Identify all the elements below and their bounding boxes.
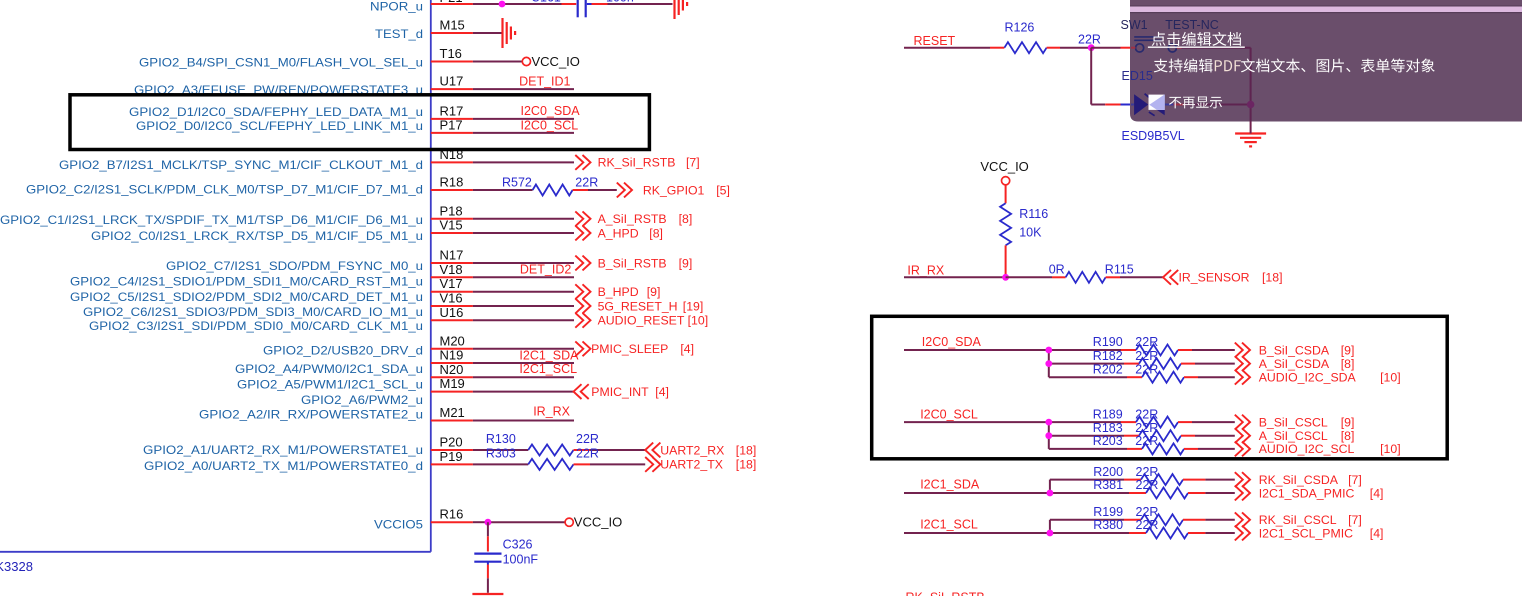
svg-text:DET_ID1: DET_ID1 xyxy=(519,74,570,88)
svg-text:[19]: [19] xyxy=(683,299,704,313)
junction RESET/ESD node xyxy=(1088,44,1095,51)
wire I2C0_SCL branch vertical xyxy=(1048,422,1050,449)
pin GPIO2_C0 wire xyxy=(431,232,473,234)
pin GPIO2_D1 wire xyxy=(431,118,473,120)
off-page connector AUDIO_RESET xyxy=(575,313,590,328)
svg-text:[7]: [7] xyxy=(1348,473,1362,487)
wire R203 to AUDIO_I2C_SCL xyxy=(1184,448,1198,450)
wire I2C0_SDA main xyxy=(904,349,1049,351)
svg-text:VCC_IO: VCC_IO xyxy=(574,515,622,530)
off-page connector PMIC_SLEEP xyxy=(575,341,590,356)
popup description PDF xyxy=(1215,60,1222,71)
popup checkbox xyxy=(1149,95,1165,110)
svg-text:100nF: 100nF xyxy=(503,553,539,567)
svg-text:U16: U16 xyxy=(440,305,464,320)
svg-text:[9]: [9] xyxy=(679,256,693,270)
svg-text:UART2_RX: UART2_RX xyxy=(660,443,724,457)
svg-text:R200: R200 xyxy=(1093,465,1123,479)
pin GPIO2_C4 wire xyxy=(431,276,473,278)
svg-text:R182: R182 xyxy=(1093,349,1123,363)
resistor R182 row wire xyxy=(1049,363,1124,365)
resistor R183 body xyxy=(1139,430,1181,441)
resistor R190 row wire xyxy=(1049,349,1121,351)
ground (TEST pin) xyxy=(501,18,503,48)
svg-text:[10]: [10] xyxy=(688,314,709,328)
wire I2C0_SDA branch vertical xyxy=(1048,350,1050,377)
resistor R130 body xyxy=(528,445,573,456)
wire R126 to SW1 xyxy=(1047,47,1060,49)
svg-text:GPIO2_A6/PWM2_u: GPIO2_A6/PWM2_u xyxy=(301,393,423,407)
off-page connector UART2_RX xyxy=(645,443,660,458)
svg-text:R183: R183 xyxy=(1093,421,1123,435)
pin GPIO2_C7 wire xyxy=(431,262,473,264)
off-page connector A_SiI_CSDA xyxy=(1235,356,1250,371)
svg-text:N20: N20 xyxy=(440,362,464,377)
annotation box around I2C0 fan-out xyxy=(872,316,1447,459)
svg-text:VCC_IO: VCC_IO xyxy=(532,54,580,69)
diode ED15 cathode bar ticks xyxy=(1145,94,1155,116)
pin GPIO2_D0 wire xyxy=(431,132,473,134)
svg-text:[5]: [5] xyxy=(716,183,730,197)
svg-text:22R: 22R xyxy=(575,175,598,189)
svg-text:5G_RESET_H: 5G_RESET_H xyxy=(598,299,678,313)
svg-text:U17: U17 xyxy=(440,74,464,89)
resistor R183 row wire xyxy=(1049,435,1124,437)
svg-text:0R: 0R xyxy=(1049,263,1065,277)
resistor R200 row wire xyxy=(1050,479,1124,481)
wire I2C1_SDA branch vertical xyxy=(1049,480,1051,493)
svg-text:RK3328: RK3328 xyxy=(0,559,33,574)
svg-text:GPIO2_D0/I2C0_SCL/FEPHY_LED_LI: GPIO2_D0/I2C0_SCL/FEPHY_LED_LINK_M1_u xyxy=(136,119,423,133)
diode ED15 left triangle xyxy=(1134,94,1148,115)
wire I2C1_SCL main xyxy=(904,532,1050,534)
popup overlay panel xyxy=(1130,0,1522,122)
off-page connector A_SiI_RSTB xyxy=(575,211,590,226)
svg-text:[4]: [4] xyxy=(1370,486,1384,500)
svg-text:IR_RX: IR_RX xyxy=(533,405,570,419)
svg-text:GPIO2_C5/I2S1_SDIO2/PDM_SDI2_M: GPIO2_C5/I2S1_SDIO2/PDM_SDI2_M0/CARD_DET… xyxy=(70,290,423,304)
switch SW1 left contact xyxy=(1136,44,1144,52)
resistor R203 body xyxy=(1142,443,1184,454)
capacitor C161 plates xyxy=(577,0,579,17)
wire SW1 to corner (through popup) xyxy=(1177,47,1182,49)
svg-text:[8]: [8] xyxy=(679,212,693,226)
svg-text:IR_RX: IR_RX xyxy=(907,263,944,277)
svg-text:I2C1_SDA_PMIC: I2C1_SDA_PMIC xyxy=(1259,486,1355,500)
svg-text:V16: V16 xyxy=(440,291,463,306)
wire C161 to ground xyxy=(587,3,592,5)
svg-text:GPIO2_C6/I2S1_SDIO3/PDM_SDI3_M: GPIO2_C6/I2S1_SDIO3/PDM_SDI3_M0/CARD_IO_… xyxy=(83,305,423,319)
off-page connector RK_SiI_CSDA xyxy=(1235,472,1250,487)
svg-text:[10]: [10] xyxy=(1380,371,1401,385)
wire I2C0_SCL main xyxy=(904,421,1049,423)
svg-text:I2C0_SCL: I2C0_SCL xyxy=(920,407,978,421)
svg-text:ED15: ED15 xyxy=(1122,69,1153,83)
svg-text:22R: 22R xyxy=(576,432,599,446)
resistor R115 body xyxy=(1066,272,1106,283)
svg-text:TEST_d: TEST_d xyxy=(375,27,423,41)
diode ED15 right triangle xyxy=(1149,94,1164,115)
svg-text:AUDIO_RESET: AUDIO_RESET xyxy=(598,314,685,328)
svg-text:PMIC_SLEEP: PMIC_SLEEP xyxy=(591,342,668,356)
svg-text:R189: R189 xyxy=(1093,407,1123,421)
wire R115 to IR_SENSOR xyxy=(1106,276,1120,278)
junction I2C0_SCL row1 xyxy=(1045,419,1052,426)
svg-text:GPIO2_A2/IR_RX/POWERSTATE2_u: GPIO2_A2/IR_RX/POWERSTATE2_u xyxy=(199,407,423,421)
svg-text:B_HPD: B_HPD xyxy=(598,285,639,299)
svg-text:C326: C326 xyxy=(503,537,533,551)
svg-text:M19: M19 xyxy=(440,376,465,391)
pin TEST_d wire xyxy=(431,32,473,34)
svg-text:I2C0_SCL: I2C0_SCL xyxy=(521,118,579,132)
svg-text:R116: R116 xyxy=(1019,207,1048,221)
svg-text:RK_SiI_RSTB: RK_SiI_RSTB xyxy=(906,591,985,596)
off-page connector RK_SiI_CSCL xyxy=(1235,512,1250,527)
svg-text:B_SiI_CSCL: B_SiI_CSCL xyxy=(1259,415,1328,429)
wire VCC_IO to R116 xyxy=(1005,185,1007,204)
svg-text:DET_ID2: DET_ID2 xyxy=(520,263,571,277)
resistor R380 row wire xyxy=(1050,532,1129,534)
wire R381 to I2C1_SDA_PMIC xyxy=(1188,492,1205,494)
power terminal VCC_IO on VCCIO5 row xyxy=(565,518,573,526)
popup light band xyxy=(1130,7,1522,13)
svg-text:[4]: [4] xyxy=(1370,526,1384,540)
wire ED15 anode (through popup) xyxy=(1131,104,1134,106)
resistor R199 row wire xyxy=(1050,519,1124,521)
junction ED15/ground node (through popup) xyxy=(1247,101,1255,109)
switch SW1 actuator bar xyxy=(1134,36,1162,38)
svg-text:B_SiI_CSDA: B_SiI_CSDA xyxy=(1259,343,1330,357)
svg-text:A_SiI_CSCL: A_SiI_CSCL xyxy=(1259,429,1328,443)
svg-text:[18]: [18] xyxy=(736,458,757,472)
svg-text:RK_GPIO1: RK_GPIO1 xyxy=(643,183,705,197)
power terminal VCC_IO (pull-up) xyxy=(1002,177,1010,185)
svg-text:GPIO2_A0/UART2_TX_M1/POWERSTAT: GPIO2_A0/UART2_TX_M1/POWERSTATE0_d xyxy=(144,459,423,473)
svg-text:TEST-NC: TEST-NC xyxy=(1165,18,1218,32)
power terminal VCC_IO on T16 row xyxy=(522,57,530,65)
svg-text:AUDIO_I2C_SCL: AUDIO_I2C_SCL xyxy=(1259,442,1355,456)
svg-text:A_SiI_RSTB: A_SiI_RSTB xyxy=(598,212,667,226)
svg-text:RK_SiI_RSTB: RK_SiI_RSTB xyxy=(598,156,676,170)
pin GPIO2_C1 wire xyxy=(431,218,473,220)
wire I2C1_SDA main xyxy=(904,492,1050,494)
off-page connector B_HPD xyxy=(575,284,590,299)
svg-text:[9]: [9] xyxy=(1341,415,1355,429)
svg-text:A_HPD: A_HPD xyxy=(598,226,639,240)
wire R572 to RK_GPIO1 xyxy=(573,189,588,191)
svg-text:[10]: [10] xyxy=(1380,442,1401,456)
svg-text:SW1: SW1 xyxy=(1121,18,1148,32)
svg-text:R18: R18 xyxy=(440,175,464,190)
ground (NPOR decoupling) xyxy=(673,0,675,19)
off-page connector PMIC_INT xyxy=(574,384,589,399)
resistor R126 body xyxy=(1004,42,1046,53)
svg-text:[18]: [18] xyxy=(1262,271,1283,285)
svg-text:C161: C161 xyxy=(531,0,561,5)
resistor R189 body xyxy=(1136,417,1178,428)
off-page connector I2C1_SDA_PMIC xyxy=(1235,486,1250,501)
resistor R381 body xyxy=(1146,488,1188,499)
wire R200 to RK_SiI_CSDA xyxy=(1183,479,1205,481)
svg-text:GPIO2_C1/I2S1_LRCK_TX/SPDIF_TX: GPIO2_C1/I2S1_LRCK_TX/SPDIF_TX_M1/TSP_D6… xyxy=(0,213,423,227)
svg-text:P20: P20 xyxy=(440,435,463,450)
wire R130 to UART2_RX xyxy=(574,449,591,451)
svg-text:[4]: [4] xyxy=(655,385,669,399)
svg-text:R199: R199 xyxy=(1093,505,1123,519)
svg-text:R380: R380 xyxy=(1093,518,1123,532)
wire RESET into SW1 (through popup) xyxy=(1131,47,1135,49)
junction I2C1_SCL xyxy=(1047,530,1054,537)
svg-text:22R: 22R xyxy=(576,446,599,460)
junction I2C0_SDA row2 xyxy=(1045,360,1052,367)
svg-text:GPIO2_C4/I2S1_SDIO1/PDM_SDI1_M: GPIO2_C4/I2S1_SDIO1/PDM_SDI1_M0/CARD_RST… xyxy=(70,275,423,289)
svg-text:I2C0_SDA: I2C0_SDA xyxy=(922,335,982,349)
junction on NPOR net xyxy=(499,1,506,8)
svg-text:22R: 22R xyxy=(1078,32,1101,46)
pin GPIO2_A4 wire xyxy=(431,362,473,364)
off-page connector IR_SENSOR xyxy=(1163,270,1178,285)
svg-text:VCCIO5: VCCIO5 xyxy=(374,518,423,532)
svg-text:[8]: [8] xyxy=(649,226,663,240)
off-page connector B_SiI_RSTB xyxy=(575,256,590,271)
svg-text:PMIC_INT: PMIC_INT xyxy=(591,385,649,399)
pin GPIO2_C6 wire xyxy=(431,305,473,307)
wire down to ED15 xyxy=(1090,48,1092,105)
svg-text:R115: R115 xyxy=(1105,263,1134,277)
pin GPIO2_C3 wire xyxy=(431,319,473,321)
svg-text:AUDIO_I2C_SDA: AUDIO_I2C_SDA xyxy=(1259,371,1357,385)
wire R199 to RK_SiI_CSCL xyxy=(1183,519,1205,521)
wire I2C1_SCL branch vertical xyxy=(1049,520,1051,533)
svg-text:I2C1_SCL: I2C1_SCL xyxy=(920,517,978,531)
svg-text:N19: N19 xyxy=(440,348,464,363)
IC RK3328 bottom edge border xyxy=(0,551,431,553)
off-page connector AUDIO_I2C_SCL xyxy=(1235,442,1250,457)
wire VCCIO5 down to C326 xyxy=(487,522,489,536)
wire R116 to IR_RX net xyxy=(1005,245,1007,277)
resistor R189 row wire xyxy=(1049,421,1121,423)
svg-text:R126: R126 xyxy=(1005,21,1035,35)
off-page connector AUDIO_I2C_SDA xyxy=(1235,370,1250,385)
pin GPIO2_C2 wire xyxy=(431,189,473,191)
resistor R190 body xyxy=(1136,345,1178,356)
resistor R199 body xyxy=(1141,514,1183,525)
svg-text:V18: V18 xyxy=(440,262,463,277)
junction IR_RX/R116 xyxy=(1002,274,1009,281)
svg-text:R16: R16 xyxy=(440,507,464,522)
svg-text:UART2_TX: UART2_TX xyxy=(660,458,723,472)
svg-text:B_SiI_RSTB: B_SiI_RSTB xyxy=(598,256,667,270)
svg-text:I2C1_SDA: I2C1_SDA xyxy=(519,349,579,363)
svg-text:R17: R17 xyxy=(440,103,464,118)
svg-text:RK_SiI_CSDA: RK_SiI_CSDA xyxy=(1259,473,1339,487)
svg-text:[8]: [8] xyxy=(1341,429,1355,443)
svg-text:A_SiI_CSDA: A_SiI_CSDA xyxy=(1259,357,1330,371)
svg-text:[9]: [9] xyxy=(1341,343,1355,357)
pin GPIO2_B4 wire xyxy=(431,61,473,63)
resistor R200 body xyxy=(1141,474,1183,485)
svg-text:M21: M21 xyxy=(440,405,465,420)
wire ED15 cathode (through popup) xyxy=(1165,104,1174,106)
svg-text:IR_SENSOR: IR_SENSOR xyxy=(1179,271,1250,285)
svg-text:GPIO2_C3/I2S1_SDI/PDM_SDI0_M0/: GPIO2_C3/I2S1_SDI/PDM_SDI0_M0/CARD_CLK_M… xyxy=(89,319,423,333)
off-page connector I2C1_SCL_PMIC xyxy=(1235,526,1250,541)
svg-text:R190: R190 xyxy=(1093,335,1123,349)
svg-text:GPIO2_B4/SPI_CSN1_M0/FLASH_VOL: GPIO2_B4/SPI_CSN1_M0/FLASH_VOL_SEL_u xyxy=(139,55,423,69)
svg-text:R381: R381 xyxy=(1093,478,1123,492)
popup description part 1 xyxy=(1154,59,1168,73)
off-page connector B_SiI_CSCL xyxy=(1235,415,1250,430)
svg-text:[7]: [7] xyxy=(686,156,700,170)
resistor R203 row wire xyxy=(1049,448,1127,450)
resistor R202 row wire xyxy=(1049,376,1127,378)
svg-text:GPIO2_A4/PWM0/I2C1_SDA_u: GPIO2_A4/PWM0/I2C1_SDA_u xyxy=(235,362,423,376)
popup checkbox label: do not show again xyxy=(1169,97,1181,109)
wire SW1 corner down to ground (through popup) xyxy=(1250,48,1252,122)
svg-text:P18: P18 xyxy=(440,203,463,218)
svg-text:GPIO2_C0/I2S1_LRCK_RX/TSP_D5_M: GPIO2_C0/I2S1_LRCK_RX/TSP_D5_M1/CIF_D5_M… xyxy=(91,229,423,243)
pin GPIO2_A1 wire xyxy=(431,449,473,451)
wire R182 to A_SiI_CSDA xyxy=(1181,363,1195,365)
pin GPIO2_C5 wire xyxy=(431,291,473,293)
junction I2C1_SDA xyxy=(1047,490,1054,497)
wire IR_RX net xyxy=(904,276,1006,278)
popup title underline xyxy=(1148,46,1245,48)
pin GPIO2_A2 wire xyxy=(431,420,473,422)
svg-text:R303: R303 xyxy=(486,446,516,460)
wire NPOR to C161 xyxy=(562,3,577,5)
off-page connector 5G_RESET_H xyxy=(575,299,590,314)
svg-text:GPIO2_A1/UART2_RX_M1/POWERSTAT: GPIO2_A1/UART2_RX_M1/POWERSTATE1_u xyxy=(143,443,423,457)
pin GPIO2_D2 wire xyxy=(431,348,473,350)
svg-text:[4]: [4] xyxy=(680,342,694,356)
resistor R116 body xyxy=(1000,203,1011,245)
resistor R202 body xyxy=(1142,372,1184,383)
svg-text:M15: M15 xyxy=(440,18,465,33)
off-page connector RK_GPIO1 xyxy=(617,183,632,198)
junction VCCIO5 node xyxy=(488,521,566,523)
pin NPOR_u wire (top row) xyxy=(431,3,473,5)
svg-text:P17: P17 xyxy=(440,117,463,132)
svg-text:[9]: [9] xyxy=(647,285,661,299)
switch SW1 right contact xyxy=(1168,44,1176,52)
wire R189 to B_SiI_CSCL xyxy=(1178,421,1192,423)
svg-text:R572: R572 xyxy=(502,175,532,189)
svg-text:ESD9B5VL: ESD9B5VL xyxy=(1122,129,1185,143)
diode right triangle seen through checkbox xyxy=(1149,94,1164,110)
wire R380 to I2C1_SCL_PMIC xyxy=(1188,532,1205,534)
annotation box around GPIO2_D1/D0 pins xyxy=(70,95,649,150)
pin GPIO2_A5 wire xyxy=(431,376,473,378)
svg-text:V17: V17 xyxy=(440,276,463,291)
svg-text:V15: V15 xyxy=(440,218,463,233)
ground (ESD/SW1) xyxy=(1235,132,1266,134)
svg-text:I2C0_SDA: I2C0_SDA xyxy=(521,104,581,118)
svg-text:R203: R203 xyxy=(1093,434,1123,448)
svg-text:10K: 10K xyxy=(1019,225,1042,239)
svg-text:GPIO2_C2/I2S1_SCLK/PDM_CLK_M0/: GPIO2_C2/I2S1_SCLK/PDM_CLK_M0/TSP_D7_M1/… xyxy=(26,182,423,196)
svg-text:GPIO2_D2/USB20_DRV_d: GPIO2_D2/USB20_DRV_d xyxy=(263,343,423,357)
svg-text:GPIO2_B7/I2S1_MCLK/TSP_SYNC_M1: GPIO2_B7/I2S1_MCLK/TSP_SYNC_M1/CIF_CLKOU… xyxy=(59,158,423,172)
svg-text:GPIO2_C7/I2S1_SDO/PDM_FSYNC_M0: GPIO2_C7/I2S1_SDO/PDM_FSYNC_M0_u xyxy=(166,259,423,273)
off-page connector B_SiI_CSDA xyxy=(1235,343,1250,358)
off-page connector UART2_TX xyxy=(645,457,660,472)
wire R303 to UART2_TX xyxy=(574,463,591,465)
svg-text:NPOR_u: NPOR_u xyxy=(370,0,423,14)
wire R183 to A_SiI_CSCL xyxy=(1181,435,1195,437)
wire R190 to B_SiI_CSDA xyxy=(1178,349,1192,351)
wire C326 to ground xyxy=(487,562,489,565)
svg-text:GPIO2_D1/I2C0_SDA/FEPHY_LED_DA: GPIO2_D1/I2C0_SDA/FEPHY_LED_DATA_M1_u xyxy=(129,105,423,119)
svg-text:RESET: RESET xyxy=(914,34,956,48)
svg-text:VCC_IO: VCC_IO xyxy=(980,159,1028,174)
svg-text:GPIO2_A5/PWM1/I2C1_SCL_u: GPIO2_A5/PWM1/I2C1_SCL_u xyxy=(237,377,423,391)
svg-text:[7]: [7] xyxy=(1348,513,1362,527)
resistor R303 body xyxy=(528,459,573,470)
junction I2C0_SCL row2 xyxy=(1045,432,1052,439)
pin GPIO2_B7 wire xyxy=(431,161,473,163)
svg-text:[18]: [18] xyxy=(736,443,757,457)
resistor R380 body xyxy=(1146,528,1188,539)
junction I2C0_SDA row1 xyxy=(1045,347,1052,354)
ground (C326) xyxy=(472,593,503,595)
svg-text:I2C1_SCL: I2C1_SCL xyxy=(519,362,577,376)
svg-text:R130: R130 xyxy=(486,432,516,446)
wire popup-bottom to ground xyxy=(1250,122,1252,134)
pin VCCIO5 wire xyxy=(431,521,473,523)
svg-text:M20: M20 xyxy=(440,333,465,348)
wire R202 to AUDIO_I2C_SDA xyxy=(1184,376,1198,378)
pin GPIO2_A6 wire xyxy=(431,391,473,393)
svg-text:I2C1_SDA: I2C1_SDA xyxy=(920,478,980,492)
off-page connector A_HPD xyxy=(575,226,590,241)
pin GPIO2_A3 wire xyxy=(431,88,473,90)
resistor R381 row wire xyxy=(1050,492,1129,494)
resistor R182 body xyxy=(1139,358,1181,369)
svg-text:R202: R202 xyxy=(1093,362,1123,376)
pin GPIO2_A0 wire xyxy=(431,463,473,465)
svg-text:T16: T16 xyxy=(440,46,462,61)
svg-text:[8]: [8] xyxy=(1341,357,1355,371)
popup description part 2 xyxy=(1241,58,1255,72)
wire RESET net xyxy=(904,47,990,49)
resistor R572 body xyxy=(533,185,573,196)
off-page connector A_SiI_CSCL xyxy=(1235,428,1250,443)
svg-text:I2C1_SCL_PMIC: I2C1_SCL_PMIC xyxy=(1259,526,1353,540)
IC U? RK3328 right edge border xyxy=(430,0,432,552)
svg-text:RK_SiI_CSCL: RK_SiI_CSCL xyxy=(1259,513,1337,527)
popup title: click to edit document xyxy=(1152,32,1166,46)
svg-text:P19: P19 xyxy=(440,449,463,464)
capacitor C326 plates xyxy=(474,552,501,554)
svg-text:N17: N17 xyxy=(440,248,464,263)
off-page connector RK_SiI_RSTB xyxy=(575,155,590,170)
svg-text:P21: P21 xyxy=(440,0,463,5)
